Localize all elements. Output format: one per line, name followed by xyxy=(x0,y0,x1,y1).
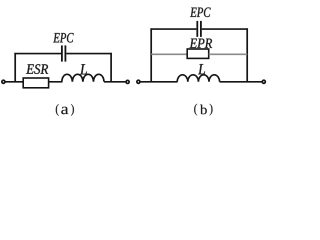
caption (b) xyxy=(194,104,212,116)
wire (b) left vertical xyxy=(150,28,152,81)
terminal dot (a) left xyxy=(2,80,5,83)
wire (a) top right xyxy=(66,53,112,55)
terminal dot (b) left xyxy=(137,80,140,83)
wire (b) middle left (gray) xyxy=(151,53,187,55)
label EPC (b) xyxy=(190,8,211,18)
capacitor EPC (b) xyxy=(197,21,201,37)
label EPR xyxy=(190,39,213,48)
wire (b) middle right (gray) xyxy=(209,53,248,55)
caption (a) xyxy=(56,104,74,116)
wire (b) top right xyxy=(202,28,248,30)
inductor L (b) xyxy=(177,75,219,82)
wire (a) left vertical xyxy=(14,53,16,82)
label EPC (a) xyxy=(53,33,73,43)
wire (b) right vertical xyxy=(246,28,248,81)
wire (b) top left xyxy=(150,28,196,30)
label L (a) xyxy=(80,64,87,74)
wire (a) top left xyxy=(14,53,61,55)
wire (a) left lead xyxy=(5,81,23,83)
wire (b) bottom right xyxy=(220,81,262,83)
label L (b) xyxy=(198,64,205,74)
resistor ESR xyxy=(23,78,48,88)
label ESR xyxy=(26,64,48,74)
inductor L (a) xyxy=(62,74,104,82)
wire (b) bottom left xyxy=(140,81,177,83)
terminal dot (b) right xyxy=(262,80,265,83)
resistor EPR xyxy=(187,49,209,58)
capacitor EPC (a) xyxy=(62,45,66,61)
terminal dot (a) right xyxy=(126,80,129,83)
wire (a) resistor to inductor xyxy=(49,81,63,83)
wire (a) right vertical xyxy=(110,53,112,82)
wire (a) inductor to right terminal xyxy=(104,81,126,83)
